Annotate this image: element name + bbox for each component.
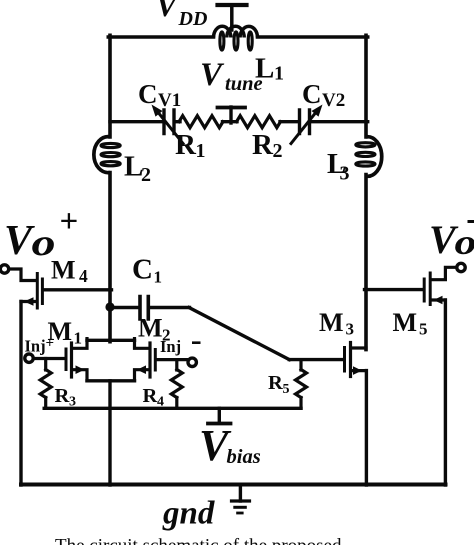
- svg-text:M: M: [319, 308, 344, 337]
- svg-text:3: 3: [340, 163, 350, 185]
- svg-text:1: 1: [154, 268, 163, 287]
- svg-text:gnd: gnd: [162, 496, 215, 532]
- svg-text:M: M: [138, 314, 163, 343]
- svg-text:V: V: [156, 0, 179, 23]
- svg-text:C: C: [302, 79, 322, 109]
- svg-text:C: C: [138, 79, 158, 109]
- svg-text:R: R: [252, 129, 274, 161]
- svg-text:V: V: [200, 57, 225, 93]
- svg-text:1: 1: [74, 329, 83, 348]
- svg-text:+: +: [60, 204, 79, 240]
- svg-text:5: 5: [283, 382, 290, 397]
- svg-text:3: 3: [346, 320, 355, 339]
- svg-text:1: 1: [274, 63, 284, 85]
- svg-text:1: 1: [196, 140, 206, 162]
- svg-text:3: 3: [69, 395, 76, 410]
- svg-text:V2: V2: [322, 90, 345, 111]
- svg-text:C: C: [132, 254, 153, 286]
- svg-text:V1: V1: [158, 90, 181, 111]
- svg-text:4: 4: [79, 266, 88, 286]
- svg-text:M: M: [393, 308, 418, 337]
- svg-text:5: 5: [419, 320, 428, 339]
- svg-text:R: R: [143, 385, 158, 407]
- svg-text:V: V: [4, 218, 35, 264]
- svg-text:+: +: [46, 336, 55, 352]
- svg-text:M: M: [51, 256, 76, 285]
- svg-text:DD: DD: [178, 8, 208, 30]
- svg-text:The circuit schematic of the p: The circuit schematic of the proposed: [55, 536, 342, 545]
- svg-text:4: 4: [157, 395, 164, 410]
- svg-text:2: 2: [141, 164, 151, 186]
- svg-text:R: R: [268, 372, 283, 394]
- svg-text:Inj: Inj: [25, 337, 46, 356]
- svg-text:o: o: [455, 222, 474, 262]
- svg-text:bias: bias: [227, 446, 261, 468]
- svg-text:R: R: [55, 385, 70, 407]
- svg-text:2: 2: [273, 140, 283, 162]
- svg-text:R: R: [175, 129, 197, 161]
- svg-text:Inj: Inj: [160, 337, 181, 356]
- svg-text:L: L: [255, 53, 274, 85]
